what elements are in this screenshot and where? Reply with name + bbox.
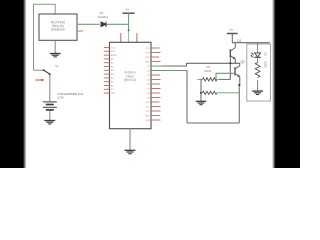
- svg-text:GND: GND: [145, 61, 150, 63]
- resistor R4 10k (horizontal): [198, 78, 220, 81]
- svg-text:5V: 5V: [230, 28, 234, 32]
- ground: below NCP: [50, 54, 61, 57]
- pin stub: NCP unconnected right pin: [77, 30, 83, 32]
- letterbox bar left: [0, 0, 27, 168]
- transistor Q2 (NPN): [235, 63, 240, 85]
- wire: resistor to ground: [257, 80, 259, 91]
- switch S1: [34, 69, 51, 75]
- svg-text:150Ω: 150Ω: [264, 61, 268, 68]
- ground: LED chain: [252, 91, 263, 94]
- svg-text:S1: S1: [55, 64, 59, 68]
- wire: LED cathode to resistor: [257, 57, 259, 62]
- svg-text:RST: RST: [145, 57, 150, 59]
- transistor Q1 (NPN): [230, 43, 235, 64]
- pin name labels: Arduino left side: [111, 47, 117, 95]
- ground: below Arduino: [125, 150, 136, 153]
- svg-text:GND: GND: [145, 115, 150, 117]
- wire: big loop left vertical: [186, 71, 188, 124]
- pin stub: Arduino 3V3 top pin: [136, 33, 138, 42]
- wire: top-left loop from NCP top pin up/left/down to switch rail: [34, 4, 56, 70]
- pin stub: Arduino VIN top pin: [120, 33, 122, 42]
- junction node: Q2 emitter to loop: [238, 84, 240, 86]
- battery BT1: [43, 102, 57, 110]
- label U2 value: Arduino Nano (Rev3.0): [124, 71, 136, 83]
- svg-text:10kΩ: 10kΩ: [204, 69, 212, 73]
- wire: Arduino bottom GND pin down: [129, 129, 131, 150]
- svg-text:AREF: AREF: [111, 54, 117, 57]
- junction node at Arduino 5V pin: [128, 30, 130, 32]
- junction node: wire A / Q1 base / R4: [229, 62, 231, 64]
- svg-text:2.5V: 2.5V: [58, 95, 65, 99]
- LED D2: [251, 53, 261, 58]
- wire: NCP bottom GND pin down: [54, 40, 56, 53]
- svg-text:D2: D2: [264, 53, 268, 57]
- switch actuator red arrow: [35, 79, 44, 82]
- wire: Q2 base feed (green): [216, 73, 235, 79]
- power flag 5V (left, above Arduino): [123, 8, 135, 14]
- svg-text:RST: RST: [111, 93, 116, 95]
- pin name labels: Arduino right side: [145, 48, 150, 122]
- wire: big loop bottom: [187, 122, 239, 124]
- wire: collector rail to LED box: [232, 42, 270, 44]
- svg-text:Breakout: Breakout: [51, 28, 64, 32]
- pin stubs: Arduino right side pins: [151, 48, 161, 120]
- wire: R4 right lead up to Q1 base node (U route): [219, 63, 230, 79]
- wire: 5V flag stem down to collector rail: [231, 34, 233, 43]
- ground: battery: [44, 121, 55, 124]
- power flag 5V (right, above Q1): [227, 28, 238, 34]
- wire: battery to ground: [49, 111, 51, 120]
- wire B: Arduino pin green then down as big loop left side: [151, 70, 187, 72]
- wire: LED anode stem: [257, 43, 259, 53]
- pin stubs: Arduino left side pins: [104, 48, 110, 94]
- wire: NCP Vout to diode D1: [77, 23, 100, 25]
- svg-text:1N4001: 1N4001: [98, 15, 109, 19]
- resistor R3 (horizontal, lower): [201, 91, 239, 94]
- wire: big loop right vertical up to Q2 emitter junction: [238, 85, 240, 123]
- pin stub: Arduino 5V top pin: [128, 31, 130, 43]
- diode D1 1N4001: [101, 22, 106, 27]
- box frame around LED chain: [247, 44, 271, 101]
- wire: vertical joining R4 left and R3 left down to ground: [200, 79, 202, 100]
- wire: diode D1 to 5V node: [107, 23, 129, 25]
- svg-text:Q1: Q1: [237, 39, 241, 43]
- resistor R5 150 ohm (vertical): [255, 63, 260, 78]
- label U1 value: NCP1400 Step-Up Breakout: [51, 20, 65, 31]
- ground: below R4/R3 junction: [196, 101, 206, 104]
- svg-text:5V: 5V: [126, 8, 130, 12]
- wire: switch to battery: [49, 74, 51, 101]
- svg-text:Q2: Q2: [241, 60, 245, 64]
- wire A green pin segment: [151, 65, 162, 67]
- wire A: Arduino pin to Q1 base node (grey, with step up): [151, 63, 240, 66]
- wire: 5V flag down through node to Arduino 5V pin: [128, 13, 130, 30]
- letterbox bar right: [272, 0, 300, 168]
- junction node: R3 left lead: [200, 92, 202, 94]
- svg-text:VIN: VIN: [146, 120, 150, 122]
- svg-text:(Rev3.0): (Rev3.0): [124, 78, 136, 82]
- IC U1 NCP1400 step-up breakout box: [39, 14, 77, 40]
- IC U2 Arduino Nano box: [110, 42, 152, 128]
